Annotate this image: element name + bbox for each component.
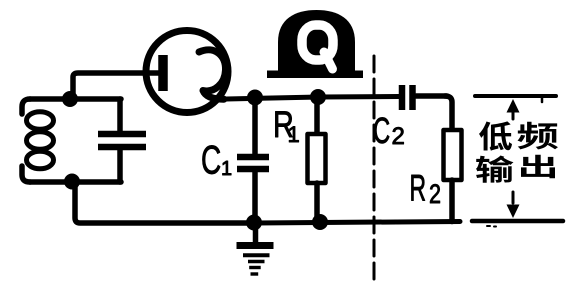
node tank top (62, 91, 78, 107)
node R1 top (310, 89, 326, 105)
dashed separator line (373, 56, 376, 283)
label C1 (201, 139, 232, 183)
earphone white Q mark (302, 25, 333, 69)
label R1 (273, 105, 300, 147)
node ground bus C1 (246, 215, 262, 231)
wire ground bus right (255, 222, 460, 224)
svg-text:C: C (201, 139, 221, 183)
svg-text:2: 2 (392, 123, 405, 150)
diode D1 point-contact detector envelope (146, 31, 228, 113)
diode D1 cat-whisker (199, 50, 226, 99)
capacitor tank tuning (98, 99, 146, 182)
label 低频输出 low-frequency output (476, 121, 558, 182)
label C2 (373, 111, 405, 151)
node C1 top (247, 90, 263, 106)
wire C2 to R2 (445, 96, 452, 130)
ground (237, 225, 274, 274)
svg-text:2: 2 (429, 180, 441, 210)
svg-text:1: 1 (288, 122, 300, 147)
capacitor C1 (237, 98, 269, 222)
output terminal top line (475, 96, 556, 102)
node ground bus R1 (312, 214, 328, 230)
node tank bottom (64, 174, 80, 190)
capacitor C2 (402, 85, 447, 110)
output terminal bottom line (472, 221, 563, 227)
resistor R1 (308, 97, 326, 222)
arrow up (507, 99, 520, 119)
wire tank bottom (30, 179, 121, 185)
label R2 (410, 167, 442, 210)
wire grid lead up to diode (73, 73, 159, 97)
coil L1 (tank inductor) (22, 99, 54, 182)
svg-text:1: 1 (221, 158, 232, 180)
svg-text:R: R (410, 167, 427, 209)
resistor R2 (444, 130, 462, 222)
svg-text:C: C (373, 111, 390, 151)
wire tank top (30, 96, 121, 102)
diode D1 crystal bar (158, 55, 168, 91)
earphone base bar (267, 71, 363, 79)
earphone dome (278, 10, 355, 72)
arrow down (507, 192, 520, 218)
wire detector output top bus (226, 97, 399, 100)
wire tank to ground bus (75, 182, 255, 223)
